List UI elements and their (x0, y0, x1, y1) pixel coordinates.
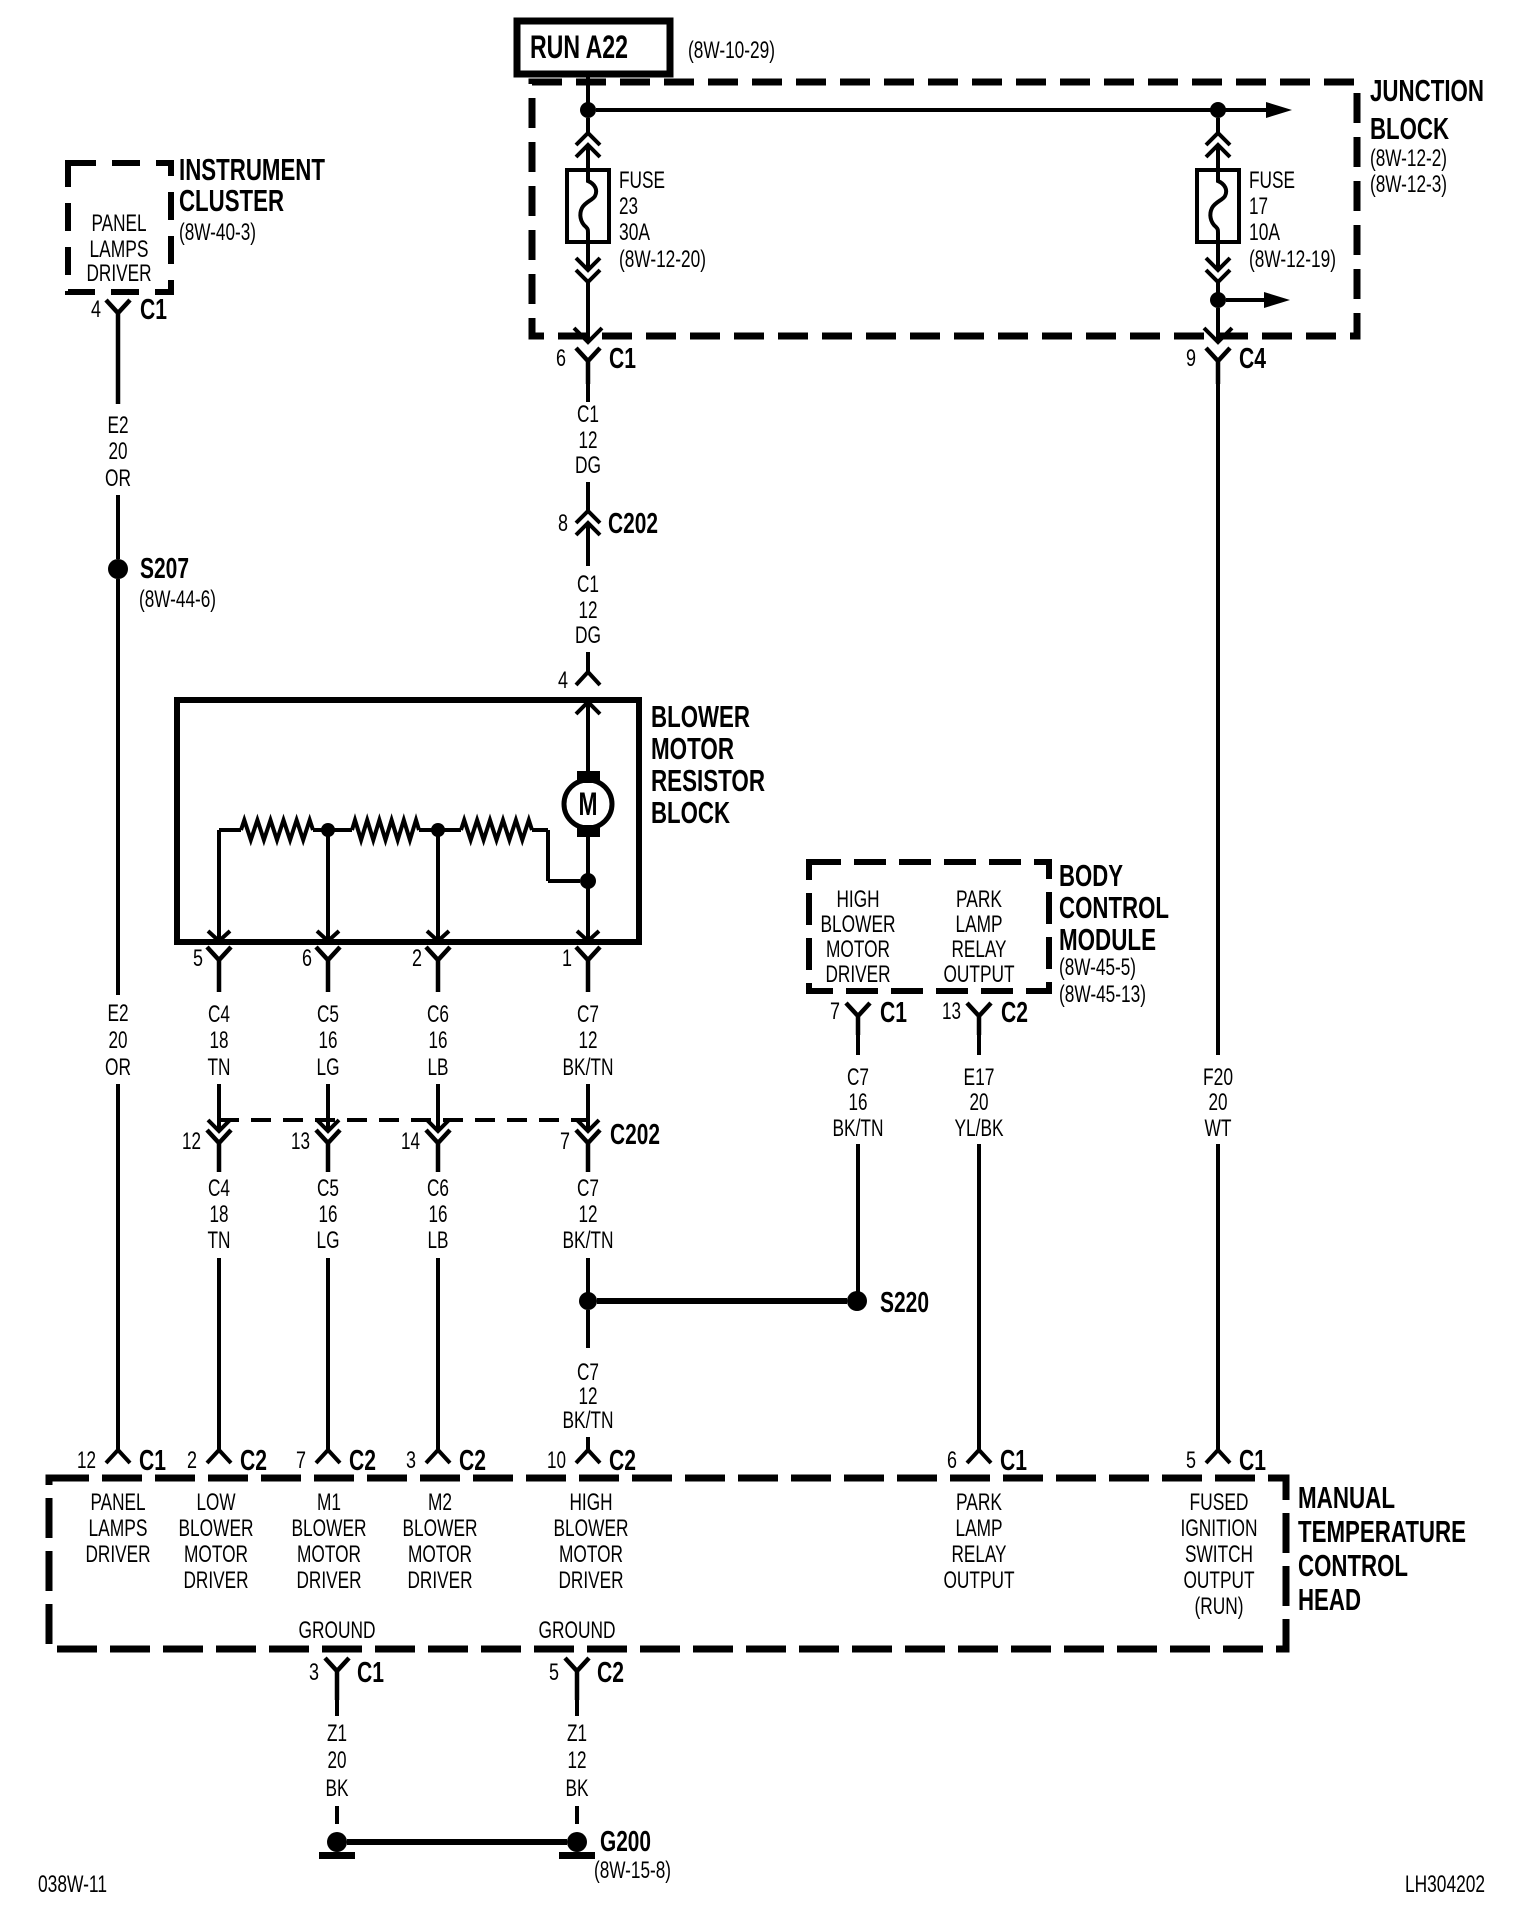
wire to S220 (856, 1144, 860, 1292)
connector 6 C1 female (576, 348, 600, 384)
lead to tap M1 (313, 828, 328, 832)
wire to splice S220 (586, 1258, 590, 1294)
connector 7 C202 male arrow (577, 1120, 599, 1131)
male pin 4 inside block (576, 702, 600, 714)
svg-text:(8W-40-3): (8W-40-3) (179, 219, 256, 246)
wire to control head pin 5 (1216, 1144, 1220, 1449)
svg-text:BLOCK: BLOCK (1370, 111, 1449, 146)
svg-text:30A: 30A (619, 219, 650, 246)
wire below C202 (586, 523, 590, 566)
svg-text:4: 4 (558, 667, 568, 694)
male pin at junction block exit C1 (574, 328, 602, 342)
svg-text:(8W-12-2): (8W-12-2) (1370, 145, 1447, 172)
wire below connector 6 C1 (586, 384, 590, 402)
svg-text:5: 5 (193, 945, 203, 972)
wire RUN A22 to junction node (586, 74, 590, 104)
male pin at junction block exit C4 (1204, 328, 1232, 342)
wire to fuse 23 connector (586, 118, 590, 133)
svg-text:LAMPS: LAMPS (89, 1515, 148, 1542)
svg-text:BK: BK (326, 1775, 349, 1802)
svg-text:HIGH: HIGH (837, 886, 880, 913)
svg-text:FUSE: FUSE (1249, 167, 1295, 194)
wire fuse 17 to branch dot (1216, 282, 1220, 293)
svg-text:FUSE: FUSE (619, 167, 665, 194)
resistor M1 element (352, 820, 419, 840)
wire park lamp to control head (977, 1144, 981, 1449)
svg-text:SWITCH: SWITCH (1185, 1541, 1253, 1568)
connector 14 C202 male arrow (427, 1120, 449, 1131)
svg-text:20: 20 (1209, 1089, 1228, 1116)
svg-text:5: 5 (1186, 1447, 1196, 1474)
svg-text:Z1: Z1 (567, 1720, 587, 1747)
svg-text:LAMP: LAMP (956, 1515, 1003, 1542)
svg-text:12: 12 (579, 1027, 598, 1054)
wire to C202 (586, 1084, 590, 1131)
wire fuse 23 to junction exit (586, 282, 590, 343)
svg-text:7: 7 (830, 998, 840, 1025)
svg-text:BLOWER: BLOWER (292, 1515, 367, 1542)
svg-text:7: 7 (560, 1128, 570, 1155)
svg-text:LH304202: LH304202 (1405, 1871, 1485, 1898)
svg-text:MOTOR: MOTOR (297, 1541, 361, 1568)
connector pin 1 female (576, 947, 600, 992)
wire pin 4 to motor (586, 702, 590, 771)
connector 4 C1 female (106, 300, 130, 404)
wire ground lower (335, 1806, 339, 1824)
svg-text:F20: F20 (1203, 1064, 1233, 1091)
svg-text:BK/TN: BK/TN (833, 1115, 884, 1142)
svg-text:MANUAL: MANUAL (1298, 1480, 1395, 1515)
wire ground upper (335, 1700, 339, 1716)
svg-text:C1: C1 (609, 343, 636, 375)
svg-text:C7: C7 (577, 1359, 599, 1386)
svg-text:12: 12 (182, 1128, 201, 1155)
blower motor resistor block outline (177, 700, 639, 942)
wire to fuse 17 connector (1216, 118, 1220, 133)
connector 13 C202 female (316, 1130, 340, 1172)
connector 12 C1 entry (106, 1450, 130, 1463)
svg-text:038W-11: 038W-11 (38, 1871, 107, 1898)
svg-text:(8W-12-20): (8W-12-20) (619, 246, 706, 273)
connector entry at control head (207, 1450, 231, 1463)
connector entry at control head (426, 1450, 450, 1463)
svg-text:2: 2 (412, 945, 422, 972)
connector 12 C202 male arrow (208, 1120, 230, 1131)
svg-text:13: 13 (942, 998, 961, 1025)
wire to C202 (217, 1084, 221, 1131)
svg-text:LOW: LOW (197, 1489, 236, 1516)
wire to motor return node (548, 879, 580, 883)
connector 7 C202 female (576, 1130, 600, 1172)
svg-text:C1: C1 (577, 401, 599, 428)
splice S207 (108, 559, 128, 579)
svg-text:BLOWER: BLOWER (554, 1515, 629, 1542)
wire resistor end down (546, 830, 550, 881)
connector pin 5 female (207, 947, 231, 992)
svg-text:C6: C6 (427, 1001, 449, 1028)
svg-text:INSTRUMENT: INSTRUMENT (179, 152, 325, 187)
svg-text:DRIVER: DRIVER (184, 1567, 249, 1594)
motor M (564, 780, 612, 828)
svg-text:3: 3 (309, 1659, 319, 1686)
svg-text:G200: G200 (600, 1826, 651, 1858)
svg-text:S207: S207 (140, 553, 189, 585)
svg-text:12: 12 (579, 1201, 598, 1228)
svg-text:C5: C5 (317, 1001, 339, 1028)
node junction dot at fuse 23 tap (580, 102, 596, 118)
svg-text:LAMP: LAMP (956, 911, 1003, 938)
svg-text:LAMPS: LAMPS (90, 236, 149, 263)
wire to pin 10 (586, 1437, 590, 1449)
svg-text:CONTROL: CONTROL (1059, 890, 1169, 925)
svg-text:16: 16 (319, 1027, 338, 1054)
svg-text:16: 16 (849, 1089, 868, 1116)
svg-text:8: 8 (558, 510, 568, 537)
lead resistor R-m1 left (328, 828, 352, 832)
svg-text:GROUND: GROUND (539, 1617, 616, 1644)
connector pin 6 female (316, 947, 340, 992)
svg-text:(8W-45-13): (8W-45-13) (1059, 981, 1146, 1008)
svg-text:C202: C202 (608, 508, 658, 540)
svg-text:DG: DG (575, 452, 601, 479)
svg-text:S220: S220 (880, 1287, 929, 1319)
lead to tap M2 (419, 828, 438, 832)
svg-text:18: 18 (210, 1201, 229, 1228)
wire below splice (586, 1310, 590, 1348)
svg-text:C1: C1 (139, 1445, 166, 1477)
node splice tap (579, 1292, 597, 1310)
svg-text:IGNITION: IGNITION (1181, 1515, 1258, 1542)
svg-text:DG: DG (575, 622, 601, 649)
svg-text:CONTROL: CONTROL (1298, 1548, 1408, 1583)
connector pin 4 entry (576, 672, 600, 685)
wire below fuse 23 (586, 242, 590, 270)
svg-text:BLOWER: BLOWER (821, 911, 896, 938)
wire BCM park lamp (977, 1035, 981, 1055)
connector chevrons above fuse 17 (1206, 133, 1230, 145)
svg-text:12: 12 (568, 1747, 587, 1774)
svg-text:(8W-12-3): (8W-12-3) (1370, 171, 1447, 198)
svg-text:2: 2 (187, 1447, 197, 1474)
connector 3 C1 ground female (325, 1658, 349, 1700)
svg-text:9: 9 (1186, 345, 1196, 372)
svg-text:MOTOR: MOTOR (559, 1541, 623, 1568)
connector 5 C1 entry (1206, 1450, 1230, 1463)
svg-text:C6: C6 (427, 1175, 449, 1202)
svg-text:E17: E17 (964, 1064, 995, 1091)
svg-text:C2: C2 (349, 1445, 376, 1477)
svg-text:20: 20 (970, 1089, 989, 1116)
junction block outline (532, 82, 1357, 336)
connector 9 C4 female (1206, 348, 1230, 384)
svg-text:C2: C2 (609, 1445, 636, 1477)
svg-text:LG: LG (317, 1054, 340, 1081)
connector 14 C202 female (426, 1130, 450, 1172)
svg-text:C202: C202 (610, 1119, 660, 1151)
wire into fuse 23 (586, 145, 590, 170)
svg-text:16: 16 (319, 1201, 338, 1228)
lead resistor right (532, 828, 548, 832)
wire S207 down (116, 579, 120, 995)
body control module outline (809, 862, 1049, 991)
wire to control head (326, 1258, 330, 1449)
connector 5 C2 ground female (565, 1658, 589, 1700)
svg-text:C7: C7 (577, 1175, 599, 1202)
wire fused ignition run (1216, 384, 1220, 1055)
connector entry at control head (316, 1450, 340, 1463)
svg-text:23: 23 (619, 193, 638, 220)
splice S220 (847, 1291, 867, 1311)
node RUN A22 feed box (517, 21, 670, 74)
wire node to pin 1 (586, 881, 590, 942)
svg-text:DRIVER: DRIVER (297, 1567, 362, 1594)
svg-text:Z1: Z1 (327, 1720, 347, 1747)
wire to C202 (436, 1084, 440, 1131)
ground terminal dot (567, 1832, 587, 1852)
svg-text:YL/BK: YL/BK (955, 1115, 1004, 1142)
wire E2 to splice S207 (116, 495, 120, 559)
wire branch to right arrow (1226, 298, 1264, 302)
wire to junction exit C4 (1216, 308, 1220, 343)
svg-text:DRIVER: DRIVER (86, 1541, 151, 1568)
instrument cluster outline (68, 163, 171, 292)
svg-text:DRIVER: DRIVER (87, 260, 152, 287)
svg-text:12: 12 (579, 427, 598, 454)
svg-text:20: 20 (109, 1027, 128, 1054)
svg-text:(RUN): (RUN) (1195, 1593, 1244, 1620)
svg-text:(8W-10-29): (8W-10-29) (688, 37, 775, 64)
svg-text:C1: C1 (880, 997, 907, 1029)
svg-text:MOTOR: MOTOR (184, 1541, 248, 1568)
svg-text:6: 6 (302, 945, 312, 972)
svg-text:HIGH: HIGH (570, 1489, 613, 1516)
svg-text:BLOWER: BLOWER (651, 699, 750, 734)
motor brush top (577, 771, 600, 783)
svg-text:PARK: PARK (956, 1489, 1002, 1516)
arrow bus continuation right (1266, 102, 1292, 118)
svg-text:C2: C2 (240, 1445, 267, 1477)
resistor M2 element (461, 820, 532, 840)
svg-text:M: M (579, 786, 598, 822)
motor brush bottom (577, 825, 600, 837)
svg-text:C1: C1 (1239, 1445, 1266, 1477)
wire to control head (436, 1258, 440, 1449)
svg-text:PARK: PARK (956, 886, 1002, 913)
wire to control head (217, 1258, 221, 1449)
node branch dot below fuse 17 (1210, 292, 1226, 308)
male pin 2 at block bottom (427, 931, 449, 941)
node tap M1 (321, 823, 335, 837)
node motor return junction (580, 873, 596, 889)
lead resistor R-m2 left (438, 828, 461, 832)
svg-text:C7: C7 (577, 1001, 599, 1028)
connector C202 dashed gang line (219, 1118, 588, 1122)
svg-text:C5: C5 (317, 1175, 339, 1202)
svg-text:16: 16 (429, 1201, 448, 1228)
svg-text:C1: C1 (140, 294, 167, 326)
svg-text:(8W-45-5): (8W-45-5) (1059, 954, 1136, 981)
svg-text:OUTPUT: OUTPUT (1184, 1567, 1255, 1594)
svg-text:RESISTOR: RESISTOR (651, 763, 765, 798)
svg-text:C2: C2 (1001, 997, 1028, 1029)
svg-text:MOTOR: MOTOR (408, 1541, 472, 1568)
svg-text:C1: C1 (357, 1657, 384, 1689)
arrow branch continuation right (1264, 292, 1290, 308)
svg-text:TEMPERATURE: TEMPERATURE (1298, 1514, 1466, 1549)
svg-text:JUNCTION: JUNCTION (1370, 73, 1484, 108)
svg-text:RELAY: RELAY (952, 936, 1007, 963)
svg-text:C4: C4 (208, 1175, 230, 1202)
svg-text:MOTOR: MOTOR (826, 936, 890, 963)
connector chevrons below fuse 17 (1206, 258, 1230, 270)
fuse F17 element (1210, 170, 1226, 242)
svg-text:M2: M2 (428, 1489, 452, 1516)
wire resistor tap to pin 5 (217, 830, 221, 942)
svg-text:C1: C1 (1000, 1445, 1027, 1477)
wire to resistor block pin 4 (586, 652, 590, 672)
wire to C202 (326, 1084, 330, 1131)
svg-text:BLOCK: BLOCK (651, 795, 730, 830)
svg-text:TN: TN (208, 1227, 231, 1254)
connector 10 C2 entry (576, 1450, 600, 1463)
svg-text:C4: C4 (1239, 343, 1266, 375)
svg-text:BK: BK (566, 1775, 589, 1802)
svg-text:(8W-15-8): (8W-15-8) (594, 1857, 671, 1884)
svg-text:16: 16 (429, 1027, 448, 1054)
svg-text:20: 20 (328, 1747, 347, 1774)
fuse F23 element (580, 170, 596, 242)
svg-text:LB: LB (428, 1227, 449, 1254)
ground bar (319, 1852, 355, 1859)
male pin 5 at block bottom (208, 931, 230, 941)
svg-text:E2: E2 (108, 1000, 129, 1027)
svg-text:6: 6 (947, 1447, 957, 1474)
svg-text:(8W-44-6): (8W-44-6) (139, 586, 216, 613)
svg-text:E2: E2 (108, 412, 129, 439)
svg-text:5: 5 (549, 1659, 559, 1686)
connector 13 C2 female (967, 1003, 991, 1035)
svg-text:7: 7 (296, 1447, 306, 1474)
wire ground upper (575, 1700, 579, 1716)
svg-text:18: 18 (210, 1027, 229, 1054)
svg-text:FUSED: FUSED (1190, 1489, 1249, 1516)
svg-text:WT: WT (1205, 1115, 1232, 1142)
svg-text:3: 3 (406, 1447, 416, 1474)
ground terminal dot (327, 1832, 347, 1852)
wire ground bus (347, 1839, 567, 1845)
svg-text:C7: C7 (847, 1064, 869, 1091)
wire splice bus to S220 (597, 1298, 847, 1304)
svg-text:OUTPUT: OUTPUT (944, 961, 1015, 988)
svg-text:BK/TN: BK/TN (563, 1227, 614, 1254)
svg-text:RELAY: RELAY (952, 1541, 1007, 1568)
wire BCM high blower (856, 1035, 860, 1055)
svg-text:HEAD: HEAD (1298, 1582, 1361, 1617)
svg-text:10A: 10A (1249, 219, 1280, 246)
svg-text:12: 12 (579, 1383, 598, 1410)
svg-text:PANEL: PANEL (92, 210, 147, 237)
lead resistor R-low left (219, 828, 241, 832)
male pin 6 at block bottom (317, 931, 339, 941)
svg-text:12: 12 (579, 597, 598, 624)
svg-text:DRIVER: DRIVER (826, 961, 891, 988)
svg-text:1: 1 (562, 945, 572, 972)
svg-text:M1: M1 (317, 1489, 341, 1516)
svg-text:17: 17 (1249, 193, 1268, 220)
connector 12 C202 female (207, 1130, 231, 1172)
svg-text:(8W-12-19): (8W-12-19) (1249, 246, 1336, 273)
svg-text:14: 14 (401, 1128, 420, 1155)
node junction dot at fuse 17 tap (1210, 102, 1226, 118)
svg-text:MODULE: MODULE (1059, 922, 1156, 957)
male pin 1 at block bottom (577, 931, 599, 941)
svg-text:C4: C4 (208, 1001, 230, 1028)
svg-text:12: 12 (77, 1447, 96, 1474)
wire ground lower (575, 1806, 579, 1824)
svg-text:DRIVER: DRIVER (559, 1567, 624, 1594)
svg-text:OR: OR (105, 1054, 131, 1081)
wire E2 to control head (116, 1084, 120, 1449)
svg-text:4: 4 (91, 296, 101, 323)
svg-text:OR: OR (105, 465, 131, 492)
svg-text:CLUSTER: CLUSTER (179, 183, 284, 218)
svg-text:13: 13 (291, 1128, 310, 1155)
svg-text:MOTOR: MOTOR (651, 731, 734, 766)
connector chevrons above fuse 23 (576, 133, 600, 145)
svg-text:DRIVER: DRIVER (408, 1567, 473, 1594)
node tap M2 (431, 823, 445, 837)
svg-text:BLOWER: BLOWER (179, 1515, 254, 1542)
manual temperature control head outline (49, 1478, 1286, 1649)
wire tap to pin 6 (326, 830, 330, 942)
connector 7 C1 female (846, 1003, 870, 1035)
svg-text:BK/TN: BK/TN (563, 1054, 614, 1081)
connector chevrons below fuse 23 (576, 258, 600, 270)
svg-text:LB: LB (428, 1054, 449, 1081)
svg-text:C2: C2 (459, 1445, 486, 1477)
svg-text:BODY: BODY (1059, 858, 1123, 893)
svg-text:OUTPUT: OUTPUT (944, 1567, 1015, 1594)
wire motor to node (586, 837, 590, 874)
svg-text:BK/TN: BK/TN (563, 1407, 614, 1434)
wire into fuse 17 (1216, 145, 1220, 170)
fuse F17 body (1197, 170, 1239, 242)
connector 13 C202 male arrow (317, 1120, 339, 1131)
svg-text:RUN A22: RUN A22 (530, 29, 628, 65)
connector 8 C202 chevrons (576, 511, 600, 523)
fuse F23 body (567, 170, 609, 242)
svg-text:LG: LG (317, 1227, 340, 1254)
svg-text:20: 20 (109, 438, 128, 465)
svg-text:C1: C1 (577, 571, 599, 598)
svg-text:TN: TN (208, 1054, 231, 1081)
svg-text:GROUND: GROUND (299, 1617, 376, 1644)
svg-text:PANEL: PANEL (91, 1489, 146, 1516)
svg-text:BLOWER: BLOWER (403, 1515, 478, 1542)
ground bar (559, 1852, 595, 1859)
wire bus to right arrow (596, 108, 1266, 112)
wire below fuse 17 (1216, 242, 1220, 270)
svg-text:10: 10 (547, 1447, 566, 1474)
wire tap to pin 2 (436, 830, 440, 942)
wire to connector C202 pin 8 (586, 482, 590, 511)
connector 6 C1 entry (967, 1450, 991, 1463)
connector pin 2 female (426, 947, 450, 992)
resistor low-speed element (241, 820, 313, 840)
svg-text:C2: C2 (597, 1657, 624, 1689)
svg-text:6: 6 (556, 345, 566, 372)
